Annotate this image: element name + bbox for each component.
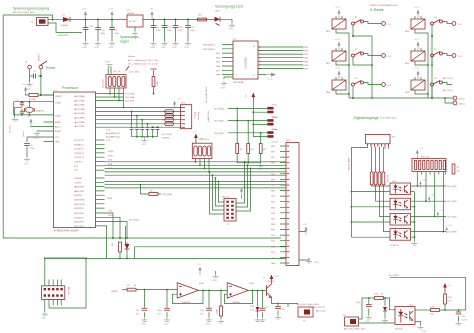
svg-text:AKL 101-6: AKL 101-6 (443, 77, 454, 80)
ground crystal caps (14, 107, 16, 117)
supply +5V arrow jumpers (246, 93, 256, 109)
svg-text:(TCK)PC2: (TCK)PC2 (74, 149, 84, 151)
svg-text:(AIN0)PB2: (AIN0)PB2 (74, 186, 85, 189)
ground IC2 (224, 77, 233, 79)
MCU right pin names PB (74, 178, 85, 210)
svg-text:R13: R13 (448, 297, 453, 299)
svg-text:DIG_EIN8: DIG_EIN8 (125, 94, 135, 96)
wire SV7 pin drops (349, 147, 389, 172)
svg-text:GND: GND (172, 47, 177, 49)
svg-text:10.4 & AKL 169-4: 10.4 & AKL 169-4 (380, 117, 397, 120)
svg-text:K-Relais: K-Relais (370, 8, 384, 12)
svg-text:DIG_EIN5: DIG_EIN5 (447, 186, 457, 188)
svg-text:XTAL1: XTAL1 (55, 115, 62, 118)
svg-text:AQUARELLE-1: AQUARELLE-1 (106, 132, 121, 135)
relay K3 (326, 77, 349, 94)
svg-text:+5V: +5V (177, 99, 181, 101)
supply +12V arrow ULN COM (258, 73, 276, 81)
svg-text:Eingang: Eingang (197, 112, 199, 120)
ground under C8 (141, 317, 148, 325)
svg-text:PC4: PC4 (106, 130, 111, 132)
svg-text:PB4: PB4 (271, 213, 276, 215)
resistor R19 220k (152, 70, 159, 94)
svg-text:8: 8 (236, 75, 238, 77)
svg-text:ULN2803A: ULN2803A (245, 57, 248, 69)
svg-text:GND: GND (95, 47, 100, 49)
svg-text:(ADC6)PA6: (ADC6)PA6 (74, 121, 86, 124)
svg-text:PE0: PE0 (271, 146, 276, 148)
supply +12V arrow b (108, 9, 114, 20)
svg-text:T1: T1 (263, 278, 266, 280)
label AKL X2 (297, 303, 320, 306)
svg-text:RN2 10k: RN2 10k (421, 157, 430, 159)
capacitor C12 100n (162, 19, 173, 42)
svg-text:QUARZ1: QUARZ1 (36, 110, 45, 113)
svg-text:+5V: +5V (22, 84, 26, 86)
wire anode drops (372, 185, 390, 232)
svg-text:RE2: RE2 (304, 51, 309, 53)
svg-text:C13: C13 (178, 27, 183, 29)
optocoupler OK2 (390, 181, 411, 195)
contact K3 (352, 78, 382, 99)
capacitor C3 reset (33, 71, 37, 79)
svg-text:RE6: RE6 (304, 65, 309, 67)
svg-text:GND: GND (257, 169, 262, 171)
capacitor C8 10n (136, 290, 147, 318)
svg-text:O-2: O-2 (388, 56, 392, 58)
svg-text:R18: R18 (250, 306, 255, 308)
diode D4 1N4004 (61, 15, 127, 28)
net label PWM (111, 290, 127, 293)
ground under R17 (218, 319, 224, 323)
RN2 lower stubs (421, 172, 445, 175)
svg-text:C18: C18 (89, 26, 94, 28)
svg-text:PB2: PB2 (271, 202, 276, 204)
LED LED1 (213, 17, 232, 26)
svg-text:O-4: O-4 (458, 24, 462, 26)
ground under C9 (109, 41, 116, 49)
svg-text:C25: C25 (281, 309, 286, 311)
capacitor C16 10n (200, 290, 212, 317)
svg-text:PB7: PB7 (271, 230, 276, 232)
svg-text:GND: GND (41, 318, 46, 320)
svg-text:GND-1: GND-1 (459, 104, 466, 106)
svg-text:Reset: Reset (46, 66, 55, 70)
svg-text:SV7: SV7 (392, 137, 397, 139)
svg-text:(MISO)PB6: (MISO)PB6 (74, 204, 85, 206)
svg-text:10n: 10n (200, 314, 204, 316)
svg-text:4k7: 4k7 (263, 149, 267, 151)
svg-text:TXD: TXD (108, 211, 113, 213)
IC2 output wires to relays (258, 47, 309, 71)
resistor R1 10k reset pullup (26, 94, 41, 101)
svg-text:R22: R22 (198, 15, 203, 17)
svg-text:GND: GND (150, 47, 155, 49)
connector SV6 JTAG MIL10 (222, 197, 236, 227)
svg-text:C17: C17 (265, 307, 270, 309)
ground under D2 (255, 317, 261, 321)
svg-text:+5V: +5V (193, 132, 197, 134)
capacitor C1 22p (15, 100, 25, 108)
svg-text:C12: C12 (167, 27, 172, 29)
svg-text:GND: GND (271, 263, 276, 265)
svg-text:IC3: IC3 (127, 10, 131, 12)
svg-text:JP1-1: JP1-1 (272, 105, 278, 107)
svg-text:RE1: RE1 (304, 47, 309, 49)
MCU right pin names PD (74, 213, 85, 228)
optocoupler OK3 (390, 198, 411, 210)
heading Digitaleingaenge (354, 116, 397, 120)
svg-text:PB0: PB0 (271, 191, 276, 193)
label AKL rotated right (207, 110, 210, 122)
svg-text:PB6: PB6 (271, 224, 276, 226)
svg-text:(ADC1)PA1: (ADC1)PA1 (74, 99, 86, 102)
ground under reset switch (26, 82, 32, 91)
wire isp loop (45, 258, 86, 308)
ground emitter bus (411, 241, 417, 245)
svg-text:PB1: PB1 (271, 196, 276, 198)
wire reset node (30, 69, 54, 96)
wire long rows to lcd (44, 247, 286, 259)
svg-text:RE6: RE6 (216, 66, 221, 68)
label Reset (46, 66, 55, 70)
svg-text:100n: 100n (157, 310, 162, 312)
svg-text:IN OUT: IN OUT (129, 21, 137, 23)
crystal Q1 (22, 102, 45, 137)
wire emitter common (411, 192, 416, 241)
supply +12V arrow K2 (335, 39, 341, 50)
svg-text:C5: C5 (30, 145, 34, 147)
hint text (128, 56, 159, 66)
ground AGND (37, 130, 44, 132)
svg-text:100n: 100n (101, 33, 106, 35)
connector SV3 analog in (181, 103, 200, 129)
svg-text:AKL 101-2: AKL 101-2 (443, 89, 454, 92)
svg-text:22p 22p: 22p 22p (10, 125, 12, 133)
diode D3 (383, 297, 391, 318)
svg-text:10n: 10n (136, 314, 140, 316)
supply +5V arrow AVCC (27, 116, 33, 127)
svg-text:18: 18 (253, 46, 256, 48)
ground pulldowns (237, 162, 261, 164)
svg-text:+5V: +5V (419, 148, 423, 150)
svg-text:10k: 10k (457, 171, 461, 173)
svg-text:PD4: PD4 (271, 235, 276, 237)
svg-text:+5V: +5V (431, 195, 435, 197)
wire opamp2 feedback (224, 290, 264, 304)
wire left frame long L from X3 down to analog row (3, 15, 281, 238)
IC2 left pin stubs (203, 45, 233, 77)
resistor R16 1k (368, 294, 395, 310)
svg-text:PE7: PE7 (271, 185, 276, 187)
svg-text:RE5: RE5 (405, 63, 410, 65)
svg-text:Jumper: Jumper (271, 140, 278, 143)
svg-text:AKL 169-2 &: AKL 169-2 & (313, 306, 325, 309)
wire opto collector (415, 309, 431, 311)
svg-text:AVCC: AVCC (55, 126, 61, 129)
svg-text:Spannungsversorgung: Spannungsversorgung (13, 7, 49, 11)
net labels DIG ports (125, 94, 135, 103)
svg-text:RE5: RE5 (304, 61, 309, 63)
wire jumper bus (214, 108, 267, 137)
connector SV4 LCD (286, 140, 299, 266)
svg-text:RE3: RE3 (304, 54, 309, 56)
svg-text:100K: 100K (217, 309, 219, 314)
svg-text:+5V: +5V (447, 285, 451, 287)
svg-text:DIG_EIN6: DIG_EIN6 (214, 121, 224, 123)
svg-text:O-1: O-1 (388, 24, 392, 26)
svg-text:(TDI)PC5: (TDI)PC5 (74, 162, 84, 164)
net labels X1 left (313, 306, 327, 313)
contact K2 (352, 49, 382, 65)
svg-text:GND: GND (185, 47, 190, 49)
svg-text:& AKL 169-4: & AKL 169-4 (207, 110, 210, 122)
svg-text:(ADC7)PA7: (ADC7)PA7 (74, 125, 86, 128)
svg-text:(ADC4)PA4: (ADC4)PA4 (74, 112, 86, 115)
svg-text:IC4A: IC4A (199, 282, 204, 285)
svg-text:PE3: PE3 (271, 163, 276, 165)
svg-text:GND: GND (55, 142, 60, 144)
ground LCD (299, 258, 309, 260)
svg-text:SIL 9x4: SIL 9x4 (388, 174, 390, 182)
svg-text:XTAL2: XTAL2 (55, 102, 62, 105)
diode D1 on sense line (119, 226, 129, 259)
resistor R3 on sense line (112, 242, 121, 252)
svg-text:JP2-1: JP2-1 (272, 117, 278, 119)
IC2 ULN2803A (233, 39, 258, 84)
op-amp IC4B LM358 (227, 283, 254, 305)
terminal O-2 (382, 54, 392, 58)
supply +5V arrow JTAG (240, 186, 247, 196)
svg-text:IC4B: IC4B (249, 283, 254, 285)
svg-text:4k7: 4k7 (251, 149, 255, 151)
svg-text:RE4: RE4 (216, 57, 221, 59)
wire RN1 drops to bundle (195, 158, 210, 172)
MCU IC1 ATMEGA644-16DIP (54, 90, 96, 233)
svg-text:GND: GND (109, 47, 114, 49)
svg-text:(ADC3)PA3: (ADC3)PA3 (74, 108, 86, 111)
ground opamp supply (215, 271, 217, 274)
svg-text:RE2: RE2 (326, 63, 331, 65)
svg-text:(INT0)PD2: (INT0)PD2 (74, 222, 85, 224)
svg-text:PD7: PD7 (271, 252, 276, 254)
ground under C23 (456, 321, 462, 325)
svg-text:100n: 100n (178, 30, 183, 32)
svg-text:10k -> Widerstand 0, 10+ 0, 10: 10k -> Widerstand 0, 10+ 0, 100 (128, 63, 159, 66)
ground under ISP (44, 300, 46, 312)
terminal O-3 (382, 83, 392, 87)
supply +5V arrow LCD (299, 227, 306, 232)
wire crystal rails (14, 101, 54, 116)
svg-text:GND: GND (229, 29, 234, 31)
net labels bus (108, 151, 114, 170)
svg-text:C20: C20 (190, 27, 195, 29)
svg-text:+12V: +12V (414, 7, 420, 9)
svg-text:MISO: MISO (108, 155, 114, 157)
svg-text:O-3: O-3 (388, 85, 392, 87)
svg-text:+5V: +5V (27, 116, 31, 118)
supply +5V arrow RN2 (416, 148, 424, 158)
svg-text:RE7: RE7 (304, 69, 309, 71)
svg-text:+12V: +12V (274, 276, 280, 278)
wire cathode bus (351, 148, 391, 238)
svg-text:(ADC0)PA0: (ADC0)PA0 (74, 95, 86, 98)
resistor R22 for LED (196, 15, 213, 21)
relay K2 (326, 48, 349, 65)
svg-text:K1: K1 (355, 17, 358, 19)
svg-text:GND: GND (24, 164, 29, 166)
svg-text:12V-2: 12V-2 (459, 99, 465, 101)
svg-text:DIG_EIN5: DIG_EIN5 (214, 133, 224, 135)
ground under C13 (172, 41, 179, 49)
svg-text:DIG_EIN7: DIG_EIN7 (125, 101, 135, 103)
svg-text:AGND: AGND (55, 130, 62, 133)
svg-text:(TXD)PD1: (TXD)PD1 (74, 217, 84, 219)
svg-text:C23: C23 (462, 316, 467, 318)
svg-text:Spannungs-: Spannungs- (120, 35, 140, 39)
svg-text:R1 10k: R1 10k (29, 99, 37, 101)
heading Spannungsregler (120, 35, 140, 44)
svg-text:PB5: PB5 (271, 218, 276, 220)
svg-text:RESET: RESET (55, 96, 63, 98)
svg-text:GND: GND (221, 88, 226, 90)
svg-text:D4: D4 (62, 15, 66, 17)
ground under D3 (382, 318, 388, 322)
svg-text:DIG_EIN2: DIG_EIN2 (447, 216, 457, 218)
wire bundle mcu to lcd connector (105, 162, 287, 188)
supply bar R19 top (151, 68, 157, 70)
wire analog bus 6 lines (96, 88, 183, 127)
svg-text:C8: C8 (136, 310, 140, 312)
svg-text:GND: GND (105, 62, 110, 64)
svg-text:1.2uF: 1.2uF (462, 320, 468, 322)
svg-text:K3: K3 (355, 78, 358, 80)
contact K6 (431, 77, 454, 99)
svg-text:(INT1)PD3: (INT1)PD3 (74, 226, 85, 228)
supply arrows opto rows (419, 180, 426, 188)
wire mcu lower pins down (105, 198, 140, 258)
svg-text:RN1: RN1 (200, 137, 206, 141)
MCU right pin names PA (74, 95, 86, 128)
svg-text:uA7805: uA7805 (127, 12, 135, 15)
contact K4 (431, 17, 453, 37)
svg-text:X3: X3 (31, 22, 34, 24)
svg-text:10k: 10k (448, 301, 452, 303)
terminal 12V-2 (453, 96, 465, 100)
capacitor C23 1.2uF (456, 310, 468, 322)
svg-text:1000uF/25V: 1000uF/25V (57, 35, 69, 37)
supply +12V arrow K6 (414, 68, 420, 79)
connector SV7 digital in (366, 134, 397, 146)
svg-text:100n: 100n (356, 302, 361, 304)
svg-text:GND: GND (34, 138, 39, 140)
svg-text:RE6: RE6 (405, 92, 410, 94)
svg-text:S1: S1 (26, 60, 28, 63)
svg-text:RE3: RE3 (216, 53, 221, 55)
svg-text:RE8: RE8 (216, 75, 221, 77)
svg-text:RE4: RE4 (405, 31, 410, 33)
svg-text:(PWM): (PWM) (111, 291, 118, 293)
svg-text:RE5: RE5 (216, 62, 221, 64)
supply +12V arrow K5 (414, 39, 420, 50)
heading K-Relais (370, 4, 398, 12)
svg-text:JP3-1: JP3-1 (272, 129, 278, 131)
svg-text:RGB/W: RGB/W (162, 138, 169, 140)
svg-text:AuT_220k: AuT_220k (130, 71, 140, 74)
supply +5V arrow reset pullup (22, 84, 28, 95)
svg-text:Hinweis:: Hinweis: (128, 56, 136, 58)
connector SV5 ISP MIL10 (42, 286, 69, 300)
supply +5V arrow RN1 (193, 132, 198, 144)
svg-text:MIL 10L: MIL 10L (222, 197, 230, 199)
heading Versorgungs LED (215, 5, 244, 13)
svg-text:DIG_EIN6: DIG_EIN6 (125, 97, 135, 99)
svg-text:SDA: SDA (108, 163, 113, 166)
svg-text:+12V: +12V (335, 7, 341, 9)
svg-text:AREF: AREF (55, 121, 61, 124)
supply +5V arrow SV3 top (173, 99, 181, 110)
svg-text:DIL D4 4kT: DIL D4 4kT (162, 134, 173, 136)
capacitor C24 100n (157, 290, 170, 318)
svg-text:AKL 169-2 & AKL 169-2: AKL 169-2 & AKL 169-2 (13, 11, 36, 14)
svg-text:+12V: +12V (108, 9, 114, 11)
svg-text:RE4: RE4 (304, 58, 309, 60)
svg-text:GND: GND (212, 280, 217, 282)
svg-text:4.7k: 4.7k (250, 310, 255, 312)
svg-text:PE2: PE2 (271, 157, 276, 159)
svg-text:C10: C10 (101, 30, 106, 32)
svg-text:AKL 169-2: AKL 169-2 (316, 310, 327, 313)
terminal GND-1 (453, 101, 466, 105)
svg-text:LED1: LED1 (215, 11, 221, 13)
svg-text:RE1: RE1 (326, 31, 331, 33)
optocoupler OK5 (390, 229, 411, 247)
svg-text:100n: 100n (167, 30, 172, 32)
relay K6 (405, 77, 428, 94)
supply +12V arrow K4 (414, 7, 420, 18)
svg-text:DIG_EIN8: DIG_EIN8 (447, 232, 457, 234)
svg-text:+12V: +12V (82, 9, 88, 11)
svg-text:K2: K2 (355, 49, 358, 51)
supply +5V arrow opamp (197, 264, 202, 275)
capacitor C2 22p (16, 109, 24, 122)
ground under C5 (24, 157, 31, 166)
svg-text:VCC: VCC (55, 137, 60, 139)
svg-text:K6: K6 (434, 78, 437, 80)
MCU left pin stubs (44, 95, 54, 142)
svg-text:AQUARELLE-2: AQUARELLE-2 (106, 136, 121, 139)
svg-text:(T1)PB1: (T1)PB1 (74, 182, 83, 184)
svg-text:PC6: PC6 (74, 166, 79, 168)
svg-text:WRC6(RE2): WRC6(RE2) (203, 49, 215, 51)
op-amp IC4A LM358 (177, 282, 204, 304)
resistor R26 pulldown (259, 132, 267, 163)
ground under IC3 (132, 31, 139, 39)
supply +5V arrow R13 (443, 283, 451, 292)
MCU right pin stubs column (96, 140, 105, 226)
ground caps row (144, 137, 146, 138)
svg-text:11: 11 (253, 75, 256, 77)
svg-text:regler: regler (120, 40, 130, 44)
svg-text:MIL 10S: MIL 10S (67, 287, 69, 295)
net label DIG_EIN7 (389, 275, 466, 310)
svg-text:R3: R3 (112, 242, 114, 246)
svg-text:DIG_EIN4: DIG_EIN4 (214, 108, 224, 110)
svg-text:+5V: +5V (448, 225, 452, 227)
svg-text:(SS)PB4: (SS)PB4 (74, 195, 83, 197)
contact K1 (352, 17, 382, 37)
supply +5V arrow after regulator (149, 9, 154, 20)
